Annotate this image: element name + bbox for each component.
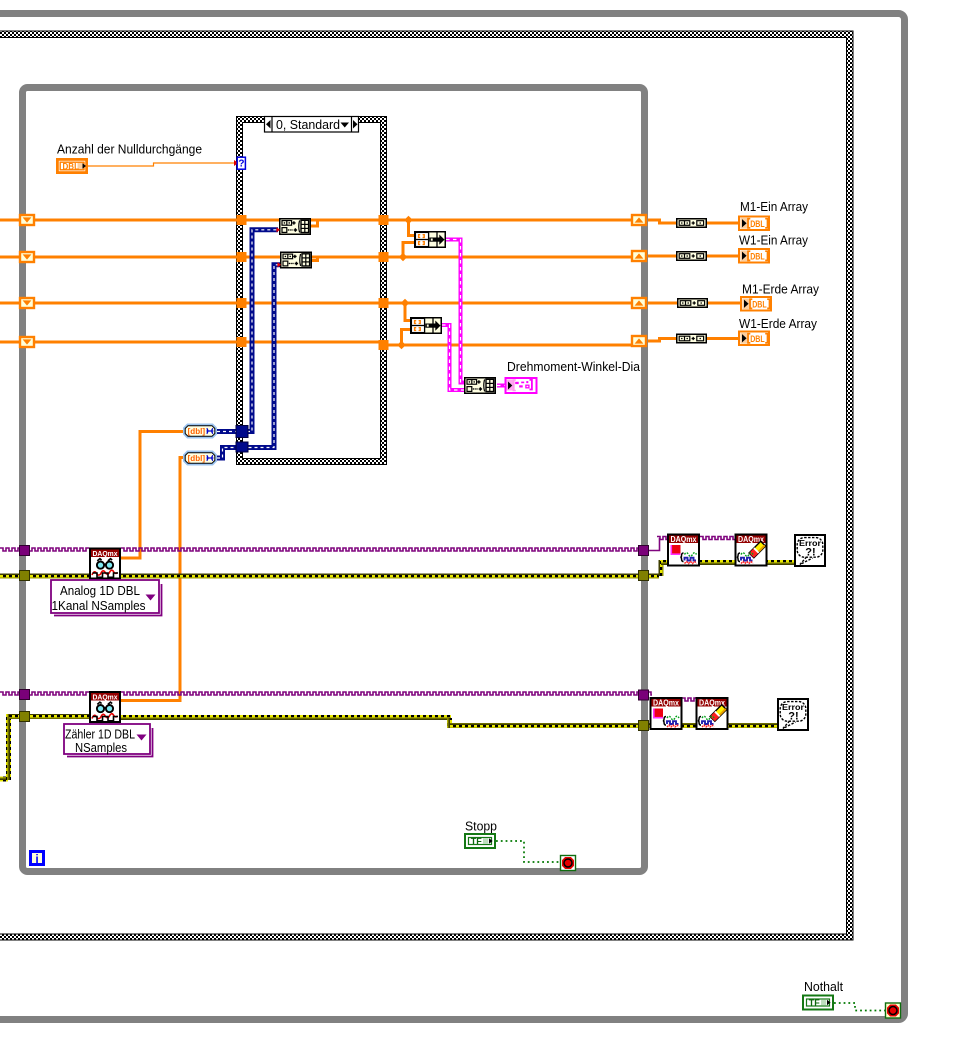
case tunnel W2 left [237,252,247,262]
right node W3 [678,299,708,308]
olive tunnel row1 left [20,571,30,581]
DAQmx Stop Task VI 1 [668,535,699,566]
error wire row 2 from left edge [0,777,8,782]
right node W2 [677,252,707,261]
case selector label [265,117,359,133]
purple task wire row 1 to DAQmx stop 1 [648,538,660,551]
purple task wire row 2 tunnel to DAQmx stop 2 [648,692,652,695]
Simple Error Handler VI 2 [778,699,808,730]
bundle node 2 [411,318,442,334]
wire W2 W1-Ein array row [0,256,632,259]
wire W2 right of loop to node [648,255,740,258]
case tunnel W1 right [379,215,389,225]
svg-text:i: i [35,852,38,866]
svg-text:M1-Erde Array: M1-Erde Array [742,282,819,297]
case tunnel W3 left [237,298,247,308]
polymorphic selector Zaehler 1D DBL NSamples [64,724,153,757]
shift register right W1 [632,215,646,225]
wire W3 M1-Erde array row [0,302,632,305]
shift register left W4 [20,337,34,347]
wire W4 right of loop to node [648,339,740,342]
outer case structure hatched border [0,31,853,940]
error wire row 2 tunnel to error handler 2 [648,723,778,728]
loop stop terminal [560,855,576,871]
purple tunnel row1 left [20,546,30,556]
Drehmoment-Winkel-Dia cluster array indicator [506,378,537,393]
olive tunnel row2 left [20,712,30,722]
case tunnel blue 2 [236,442,248,452]
build array node 2 [281,252,312,268]
purple tunnel row1 right [639,546,649,556]
svg-text:Anzahl der Nulldurchgänge: Anzahl der Nulldurchgänge [57,142,202,157]
error wire row 1 left of loop [0,574,20,579]
purple task wire row 2 left of loop [0,692,20,695]
shift register right W4 [632,336,646,346]
svg-text:NSamples: NSamples [75,740,127,755]
wire W1 output jog of build array 1 [311,220,318,226]
error wire row 1 inside loop [26,574,89,579]
wire branch bundle1 bottom input [403,243,415,258]
svg-text:Analog 1D DBL: Analog 1D DBL [60,583,140,598]
svg-text:?: ? [238,159,244,170]
Simple Error Handler VI 1 [795,535,825,566]
wire W2 output jog of build array 2 [311,257,318,261]
indicator M1-Ein Array [739,217,769,231]
DAQmx Read VI 2 [90,692,120,722]
wire branch bundle2 bottom input [402,330,412,346]
wire DAQmx read 1 data output to conversion node 1 [121,432,185,559]
shift register left W2 [20,252,34,262]
error wire clear 1 to error handler 1 [766,560,794,565]
olive tunnel row1 right [639,571,649,581]
svg-text:W1-Erde Array: W1-Erde Array [739,316,817,331]
olive tunnel row2 right [639,721,649,731]
inner while loop border [23,88,645,872]
purple task wire row 1 left of loop [0,548,20,551]
case tunnel W3 right [379,298,389,308]
wire W1 right of loop to node [648,220,740,223]
blue I32 wire conversion node 2 to build array 2 [217,265,280,458]
iteration terminal [31,852,44,866]
case tunnel W1 left [237,215,247,225]
svg-text:Stopp: Stopp [465,819,497,834]
polymorphic selector Analog 1D DBL 1Kanal NSamples [51,580,162,616]
svg-text:M1-Ein Array: M1-Ein Array [740,199,808,214]
scalar wire Anzahl to case selector [88,163,237,166]
shift register left W3 [20,298,34,308]
purple task wire between stop 1 and clear 1 [700,537,735,540]
indicator W1-Erde Array [739,332,769,346]
svg-text:W1-Ein Array: W1-Ein Array [739,233,808,248]
build cluster array node [465,378,496,394]
indicator M1-Erde Array [741,297,771,311]
case structure hatched border [236,116,387,465]
right node W4 [677,334,707,343]
DAQmx Clear Task VI 1 [736,535,767,566]
svg-text:0, Standard: 0, Standard [276,117,340,132]
conversion node to I32 array 1 [184,425,216,438]
purple tunnel row2 left [20,690,30,700]
junction dot on W1 [404,216,413,225]
build array node 1 [280,219,311,235]
wire W4 right of case tunnel [386,344,632,347]
case tunnel blue 1 [236,426,248,438]
case tunnel W2 right [379,252,389,262]
purple tunnel row2 right [639,690,649,700]
coercion dot build array 2 [278,262,282,267]
svg-text:Drehmoment-Winkel-Dia: Drehmoment-Winkel-Dia [507,359,641,374]
green boolean wire Stopp to loop stop terminal [496,841,560,862]
right node W1 [677,219,707,228]
error wire row 2 inside loop [26,714,89,719]
DAQmx Clear Task VI 2 [697,698,728,729]
wire branch bundle1 top input [409,220,416,236]
DBL control Anzahl der Nulldurchgaenge [56,158,88,174]
bundle node 1 [415,232,446,248]
junction dot on W2 [399,253,408,262]
wire W1 M1-Ein array row [0,219,632,222]
svg-text:Nothalt: Nothalt [804,979,843,994]
coercion dot build array 1 [277,227,281,232]
case selector terminal [234,157,245,169]
wire DAQmx read 2 data output to conversion node 2 [121,458,185,701]
error wire between stop 1 and clear 1 [700,560,735,565]
shift register right W3 [632,298,646,308]
wire branch bundle2 top input [405,303,411,321]
case tunnel W4 right [379,340,389,350]
purple task wire row 2 inside loop [26,692,89,695]
junction dot on W4 [397,341,406,350]
DAQmx Stop Task VI 2 [651,698,682,729]
magenta cluster wire bundle 2 to build cluster array bottom input [442,325,465,390]
error wire row 1 tunnel to DAQmx stop 1 [648,574,659,579]
purple task wire row 1 inside loop [0,537,735,702]
shift register left W1 [20,215,34,225]
purple task wire between stop 2 and clear 2 [682,698,696,701]
shift register right W2 [632,251,646,261]
wire W4 W1-Erde array row left part [0,341,381,344]
Stopp TF control [465,834,495,848]
junction dot on W3 [401,299,410,308]
wire W3 right of loop to node [648,302,742,305]
magenta wire build cluster array to Drehmoment indicator [497,384,505,388]
magenta cluster wire bundle 1 to build cluster array top input [446,240,465,383]
svg-text:DBL: DBL [63,161,80,171]
conversion node to I32 array 2 [184,452,216,465]
indicator W1-Ein Array [739,249,769,263]
outer loop stop terminal [885,1003,901,1019]
Nothalt TF control [803,996,833,1010]
green boolean wire Nothalt to outer loop stop terminal [834,1003,885,1011]
svg-text:1Kanal NSamples: 1Kanal NSamples [52,598,146,613]
DAQmx Read VI 1 [90,549,120,579]
blue I32 wire conversion node 1 to build array 1 [217,230,278,432]
case tunnel W4 left [237,337,247,347]
